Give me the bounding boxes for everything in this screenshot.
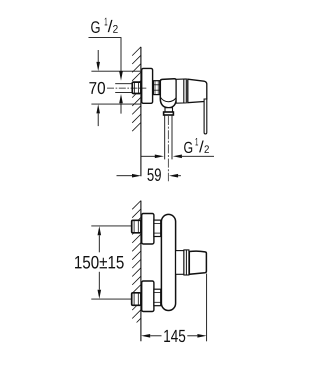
dim 150 upper extension line bbox=[91, 225, 132, 227]
text 70 bbox=[89, 82, 105, 94]
text 59 bbox=[147, 168, 160, 181]
handle (front view) bbox=[189, 251, 206, 274]
handle head (top view) bbox=[188, 79, 207, 103]
bottom union nut (front view) bbox=[154, 289, 161, 306]
body capsule (front view) bbox=[161, 214, 175, 310]
dimension 70 lower extension line bbox=[91, 103, 140, 105]
dimension 70 upper arrow bbox=[96, 50, 100, 71]
dimension 70 upper extension line bbox=[91, 70, 140, 72]
label G1/2 hose thread bbox=[184, 138, 209, 153]
arrow down to supply nut bbox=[119, 71, 123, 80]
dim 145 line and arrows bbox=[141, 334, 207, 338]
top escutcheon (front view) bbox=[142, 214, 154, 245]
dim 150 upper arrow bbox=[98, 226, 102, 252]
supply nut (top view) bbox=[132, 82, 141, 93]
cartridge rings (front view) bbox=[184, 250, 189, 275]
cartridge neck (front view) bbox=[176, 251, 184, 275]
arrow up to supply nut bbox=[119, 94, 123, 114]
cartridge rings (top view) bbox=[176, 79, 186, 103]
leader line G1/2 top bbox=[89, 38, 122, 72]
dim 145 right extension line bbox=[206, 274, 208, 342]
hose centerline (top view) bbox=[167, 116, 169, 181]
dim 150 lower arrow bbox=[98, 272, 102, 299]
shower hose (top view) bbox=[165, 115, 172, 159]
dimension 70 lower arrow bbox=[96, 104, 100, 126]
hose label arrows bbox=[141, 155, 214, 159]
escutcheon (top view) bbox=[142, 68, 153, 103]
outlet flange (top view) bbox=[164, 112, 174, 115]
supply centerline over nut bbox=[133, 87, 146, 89]
supply pipe (top view) bbox=[115, 84, 132, 93]
body (top view) bbox=[160, 79, 176, 108]
dim 150 lower extension line bbox=[91, 298, 132, 300]
bottom supply nut (front view) bbox=[132, 293, 141, 306]
text 150±15 bbox=[75, 256, 124, 269]
text 145 bbox=[164, 330, 185, 342]
handle lever blade (top view) bbox=[204, 99, 207, 134]
label G1/2 supply thread (top view) bbox=[91, 18, 118, 33]
top union nut (front view) bbox=[154, 220, 161, 236]
wall (front view) with hatching bbox=[132, 201, 141, 342]
dimension 59 arrows bbox=[117, 174, 181, 178]
wall (top view) with hatching bbox=[132, 47, 141, 176]
union nut (top view) bbox=[153, 81, 159, 95]
top supply nut (front view) bbox=[132, 220, 141, 233]
body sleeve seam (top view) bbox=[161, 97, 177, 101]
outlet neck (top view) bbox=[165, 108, 173, 112]
bottom escutcheon (front view) bbox=[142, 281, 154, 312]
supply centerline (top view) bbox=[107, 87, 147, 89]
